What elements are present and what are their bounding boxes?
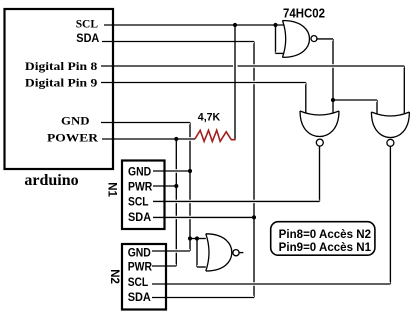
svg-text:SDA: SDA <box>76 33 99 45</box>
wire U1A input tie vertical <box>275 25 277 53</box>
wire U1C output to N2 SCL <box>152 282 390 285</box>
NOR gate U1D (inverter near N2) <box>206 234 232 271</box>
svg-text:SDA: SDA <box>128 292 151 304</box>
svg-text:GND: GND <box>128 247 151 259</box>
NOR gate U1A (SCL inverter) <box>283 21 310 58</box>
slave module N1 box <box>122 161 165 230</box>
wire POWER horizontal lead <box>102 137 195 140</box>
wire N1 PWR stub <box>153 184 176 187</box>
wire N2 GND stub <box>152 249 190 252</box>
wire SDA vertical bus <box>253 42 255 298</box>
svg-text:Pin8=0 Accès N2: Pin8=0 Accès N2 <box>279 229 371 241</box>
wire U1A output to U1C <box>333 98 377 101</box>
wire U1A output <box>316 37 333 40</box>
wire SCL from arduino to U1A inputs <box>104 23 284 26</box>
svg-text:N1: N1 <box>106 182 118 197</box>
node N1 GND junction <box>188 169 192 173</box>
svg-text:GND: GND <box>128 166 151 178</box>
wire Pin8 drop to U1C right input <box>403 66 405 114</box>
node N1 SDA junction <box>252 215 256 219</box>
wire U1D lower input stub <box>197 265 206 268</box>
svg-text:SCL: SCL <box>128 197 149 209</box>
node U1A output branch junction <box>331 98 335 102</box>
wire inverter U1D upper input <box>190 237 206 240</box>
node U1D input junction <box>188 236 192 240</box>
svg-text:GND: GND <box>61 116 90 128</box>
svg-text:PWR: PWR <box>128 262 153 274</box>
wire U1A output drop to U1B right input <box>332 39 334 113</box>
wire GND vertical bus <box>189 123 191 252</box>
svg-text:SCL: SCL <box>76 19 99 31</box>
NOR gate U1B (drives N1 SCL) <box>300 111 339 137</box>
svg-text:Digital Pin 8: Digital Pin 8 <box>25 59 97 73</box>
node SCL / R1 junction <box>233 23 237 27</box>
wire U1D input tie vertical <box>196 239 198 268</box>
node POWER junction <box>174 137 178 141</box>
wire U1B output to N1 SCL <box>153 200 320 203</box>
wire Pin9 drop to U1B left input <box>305 83 307 113</box>
wire POWER vertical bus <box>175 139 177 266</box>
svg-text:Digital Pin 9: Digital Pin 9 <box>25 76 97 90</box>
svg-text:SDA: SDA <box>128 212 151 224</box>
wire drop to U1C left input <box>376 100 378 114</box>
wire N1 SDA stub to SDA bus <box>153 216 254 219</box>
NOR gate U1C (drives N2 SCL) <box>371 112 409 138</box>
wire SCL pull-up vertical to R1 <box>234 25 236 140</box>
wire U1A lower input stub <box>276 52 285 55</box>
wire Digital Pin 8 horizontal (right of hop) <box>238 64 405 67</box>
wire N2 SDA stub to SDA bus <box>152 296 254 299</box>
arduino module box <box>5 9 114 169</box>
svg-text:Pin9=0 Accès N1: Pin9=0 Accès N1 <box>279 242 372 254</box>
slave module N2 box <box>122 244 166 310</box>
node N1 PWR junction <box>174 184 178 188</box>
wire N1 GND stub <box>153 169 190 172</box>
svg-text:4,7K: 4,7K <box>198 111 220 123</box>
wire Digital Pin 8 horizontal (left of hop) <box>101 64 233 67</box>
svg-text:74HC02: 74HC02 <box>283 6 325 20</box>
svg-text:arduino: arduino <box>24 172 78 189</box>
node U1A input tie junction <box>273 23 277 27</box>
svg-text:N2: N2 <box>108 269 120 284</box>
note box Pin8/Pin9 access <box>271 222 375 256</box>
resistor R1 4,7K zigzag <box>195 130 236 141</box>
wire Digital Pin 9 horizontal <box>101 81 306 84</box>
wire U1C output vertical <box>389 147 391 285</box>
svg-text:POWER: POWER <box>47 130 98 144</box>
svg-text:PWR: PWR <box>128 182 153 194</box>
node U1D input tie junction <box>195 236 199 240</box>
wire U1B output vertical <box>319 146 321 201</box>
wire SDA horizontal <box>102 40 254 43</box>
wire GND horizontal <box>101 121 190 124</box>
wire N2 PWR stub <box>152 264 176 267</box>
svg-text:SCL: SCL <box>128 277 149 289</box>
wire U1D output stub <box>239 251 244 254</box>
